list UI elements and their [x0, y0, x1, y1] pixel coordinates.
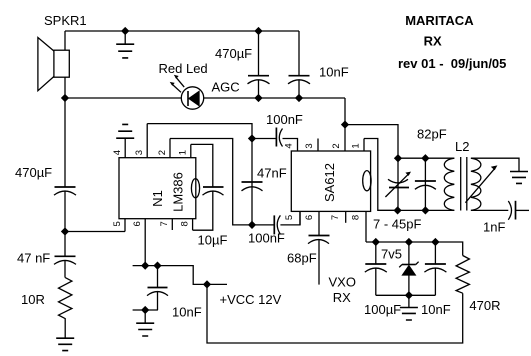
wire bottom rail to 470R	[207, 284, 463, 343]
capacitor 100nF upper	[252, 128, 298, 152]
decoupling bus near pin 6	[133, 266, 227, 285]
wire pin1 SA612 to tank bottom	[364, 139, 398, 211]
svg-text:1: 1	[351, 143, 362, 148]
wire pin2 LM386 to 47nF bottom node	[170, 139, 242, 225]
svg-text:100nF: 100nF	[266, 112, 303, 127]
junction dot 100uF tap	[373, 239, 379, 245]
svg-text:SPKR1: SPKR1	[44, 13, 87, 28]
svg-text:4: 4	[112, 150, 123, 155]
svg-text:Red Led: Red Led	[159, 61, 208, 76]
svg-text:10R: 10R	[21, 292, 45, 307]
ground bottom-left	[56, 338, 74, 350]
wire zener ground bus	[376, 294, 436, 296]
ground below zener	[400, 295, 418, 320]
svg-text:2: 2	[331, 143, 342, 148]
junction dot pin6	[142, 262, 148, 268]
svg-text:10nF: 10nF	[172, 305, 202, 320]
junction dot 10nF bottom	[296, 95, 302, 101]
junction dot zener bottom	[406, 292, 412, 298]
speaker SPKR1	[38, 31, 69, 98]
ground flipped above pin 4	[116, 124, 134, 157]
junction dot zener tap	[406, 239, 412, 245]
wire AGC corner down to pin2 SA612	[344, 98, 346, 125]
junction dot ground bus	[142, 307, 148, 313]
capacitor 47nF left	[54, 232, 76, 278]
capacitor 1nF	[508, 201, 529, 220]
svg-text:7 - 45pF: 7 - 45pF	[373, 217, 421, 232]
ground bottom middle	[136, 310, 154, 336]
junction dot VCC node	[204, 281, 210, 287]
capacitor 68pF on pin6 SA612	[308, 236, 330, 285]
capacitor 100nF lower	[242, 211, 300, 234]
svg-text:6: 6	[304, 215, 315, 220]
wire tank top rail	[398, 157, 454, 159]
svg-text:L2: L2	[455, 139, 469, 154]
svg-text:47 nF: 47 nF	[17, 251, 50, 266]
junction dot pin5 node	[62, 228, 68, 234]
svg-text:7: 7	[159, 221, 170, 226]
svg-text:3: 3	[134, 150, 145, 155]
junction dot 10nF tap right	[432, 239, 438, 245]
svg-text:AGC: AGC	[212, 80, 240, 95]
ground (top, near speaker)	[116, 31, 134, 58]
wire AGC rail	[65, 97, 345, 99]
svg-text:MARITACA: MARITACA	[405, 13, 474, 28]
wire secondary bottom to 1nF	[471, 209, 508, 211]
junction dot tank top 82pF	[422, 155, 428, 161]
capacitor 82pF	[415, 158, 436, 210]
svg-text:7v5: 7v5	[381, 247, 402, 262]
svg-text:6: 6	[132, 221, 143, 226]
capacitor 470uF top	[248, 31, 270, 98]
svg-text:47nF: 47nF	[257, 166, 287, 181]
capacitor 100uF	[365, 242, 387, 295]
wire secondary top to ground	[471, 158, 519, 171]
svg-text:82pF: 82pF	[417, 127, 447, 142]
wire VXO supply rail	[366, 242, 463, 256]
svg-text:RX: RX	[424, 34, 442, 49]
capacitor 10nF right	[424, 242, 446, 295]
capacitor 47nF mid	[242, 139, 263, 225]
svg-text:+VCC 12V: +VCC 12V	[220, 292, 282, 307]
junction dot top ground	[122, 28, 128, 34]
svg-text:5: 5	[112, 221, 123, 226]
svg-text:10nF: 10nF	[319, 65, 349, 80]
junction dot 47nF top	[249, 135, 255, 141]
svg-text:1nF: 1nF	[483, 220, 505, 235]
svg-text:4: 4	[284, 143, 295, 148]
capacitor 470uF left	[54, 98, 76, 232]
LED D1 Red Led	[170, 75, 204, 110]
junction dot 47nF bottom	[249, 222, 255, 228]
zener diode 7v5	[399, 242, 418, 295]
svg-text:5: 5	[284, 215, 295, 220]
svg-text:10µF: 10µF	[198, 233, 228, 248]
ground output right	[510, 172, 528, 184]
svg-text:10nF: 10nF	[421, 302, 451, 317]
svg-text:8: 8	[351, 215, 362, 220]
resistor 470R	[456, 256, 469, 294]
junction dot 470uF top	[255, 28, 261, 34]
junction dot 470uF bottom	[255, 95, 261, 101]
wire tank bottom rail	[378, 209, 455, 211]
junction dot pin2 SA612	[342, 121, 348, 127]
junction dot 10nF tap	[154, 262, 160, 268]
svg-text:3: 3	[304, 143, 315, 148]
junction dot tank bottom left	[394, 207, 400, 213]
wire pin5 LM386 to left node	[65, 231, 125, 233]
svg-text:N1: N1	[150, 190, 165, 207]
capacitor 10uF with pin1-pin8 loop	[191, 144, 224, 230]
resistor 10R	[59, 278, 72, 339]
svg-text:470µF: 470µF	[15, 165, 52, 180]
svg-text:470R: 470R	[469, 298, 500, 313]
capacitor 10nF bottom	[133, 266, 168, 310]
svg-text:100µF: 100µF	[364, 302, 401, 317]
svg-text:rev 01 - 09/jun/05: rev 01 - 09/jun/05	[398, 56, 506, 71]
trimmer capacitor 7-45pF	[385, 158, 411, 210]
svg-text:1: 1	[178, 150, 189, 155]
transformer L2	[444, 157, 497, 211]
IC SA612	[291, 125, 371, 242]
wire top rail	[65, 30, 299, 32]
svg-text:VXO: VXO	[329, 274, 356, 289]
svg-text:LM386: LM386	[171, 172, 186, 212]
svg-text:8: 8	[180, 221, 191, 226]
junction dot tank bottom 82pF	[422, 207, 428, 213]
svg-text:7: 7	[330, 215, 341, 220]
svg-text:2: 2	[157, 150, 168, 155]
capacitor 10nF top	[288, 31, 310, 98]
wire pin2 node to tank top	[345, 125, 398, 159]
svg-text:SA612: SA612	[322, 163, 337, 202]
wire pin3 LM386 to 47nF top node	[147, 124, 252, 139]
junction dot tank top left	[395, 155, 401, 161]
svg-text:470µF: 470µF	[215, 46, 252, 61]
svg-text:100nF: 100nF	[248, 231, 285, 246]
svg-text:68pF: 68pF	[287, 251, 317, 266]
IC N1 LM386	[119, 124, 200, 266]
svg-text:RX: RX	[333, 290, 351, 305]
junction node speaker output	[62, 95, 68, 101]
